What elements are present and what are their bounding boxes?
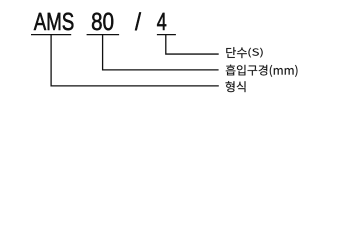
label hyeongsik (226, 81, 246, 92)
label dansu (S) suffix (248, 48, 262, 58)
leader line from 4 to dansu label (166, 34, 219, 54)
underline under 80 (87, 34, 120, 36)
text 80 (92, 13, 113, 30)
label heubipgugyeong(mm) (226, 65, 298, 77)
leader line from AMS to hyeongsik label (51, 34, 219, 86)
underline under AMS (31, 34, 71, 36)
label dansu (226, 47, 247, 58)
underline under 4 (157, 34, 176, 36)
text slash (135, 12, 141, 30)
leader line from 80 to heubipgugyeong label (103, 34, 219, 70)
text AMS (34, 13, 74, 30)
text 4 (157, 13, 166, 30)
